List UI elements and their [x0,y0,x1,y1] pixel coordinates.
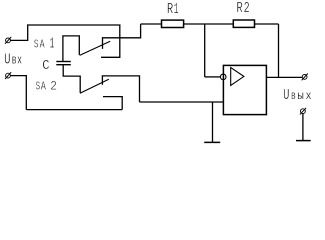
switch SA2 input-side contact hook [103,97,122,110]
svg-text:2: 2 [244,1,250,17]
label Uвых [283,88,311,104]
capacitor C plates [56,62,71,65]
wire to inverting input [205,76,221,78]
ground bar right [296,140,311,142]
svg-text:1: 1 [50,37,55,53]
svg-text:R: R [237,1,243,17]
wire non-inverting input [140,101,224,103]
svg-text:A: A [41,80,47,94]
wire top rail left [27,24,121,26]
output terminal Uвых upper [302,74,308,81]
wire op-amp output [266,76,302,78]
op-amp triangle symbol [231,68,244,86]
ground bar [204,141,220,143]
label C [42,59,49,74]
wire R2 to feedback corner [255,23,279,25]
svg-text:A: A [40,38,45,52]
svg-text:х: х [17,53,22,68]
svg-text:U: U [4,52,10,68]
svg-text:х: х [306,90,312,103]
wire from lower input terminal [10,76,26,110]
input terminal Uвх lower [5,72,11,79]
svg-text:S: S [36,80,41,94]
switch SA2 pole post [63,65,80,93]
wire feedback down to output [278,24,280,77]
input terminal Uвх upper [5,37,11,44]
svg-text:C: C [42,59,49,74]
switch SA1 lever [80,41,111,55]
op-amp U1 body [223,65,266,114]
svg-text:ы: ы [297,90,304,103]
svg-text:R: R [167,2,174,18]
label SA1 [34,37,54,53]
wire lower output terminal to ground [302,114,304,141]
label R1 [167,2,179,18]
resistor R1 [162,20,184,27]
svg-text:2: 2 [50,79,57,94]
switch SA2 lever [80,79,109,93]
switch SA1 pole post [63,36,79,62]
switch SA2 fixed contact bar [102,76,139,102]
label R2 [237,1,250,17]
wire from upper input terminal [10,25,27,40]
op-amp inverting input circle [220,74,226,80]
svg-text:в: в [12,53,17,68]
svg-text:S: S [34,38,39,52]
svg-text:в: в [291,90,296,103]
output terminal Uвых lower [300,108,306,115]
node junction R1-R2 [204,24,206,77]
wire R1 to R2 [184,23,234,25]
label Uвх [4,52,22,68]
switch SA1 fixed contact bar [103,24,141,49]
svg-text:1: 1 [174,2,179,18]
resistor R2 [233,20,254,27]
switch SA1 input-side contact hook [101,25,120,57]
wire bottom rail [26,109,122,111]
wire ground stem [212,102,214,142]
svg-text:U: U [283,88,289,104]
label SA2 [36,79,57,94]
wire SA1 to R1 (top rail right) [141,23,162,25]
